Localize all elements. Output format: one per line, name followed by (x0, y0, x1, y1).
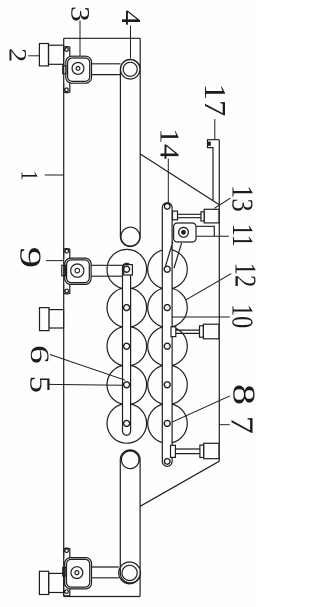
svg-text:8: 8 (226, 384, 259, 405)
bottom motor bracket (63, 548, 92, 596)
leader line 11 (196, 235, 229, 237)
leader line 4 (130, 26, 132, 59)
frame 1 top edge (64, 37, 141, 39)
belt 4 (top conveyor belt capsule) (120, 59, 140, 246)
motor 3 (top drive motor bracket) (63, 47, 92, 93)
leader line 5 (48, 383, 122, 386)
svg-text:17: 17 (198, 84, 232, 117)
svg-text:10: 10 (225, 304, 259, 328)
pulley top of bottom belt (121, 451, 139, 469)
right plate top chamfer (140, 154, 219, 205)
pulley bottom of belt 4 (121, 227, 140, 246)
leader line 3 (79, 21, 81, 57)
svg-text:14: 14 (154, 128, 184, 159)
holes and pins on swing bar 14 (164, 204, 170, 465)
bottom mounting foot (39, 571, 63, 594)
crank support step (196, 226, 214, 236)
leader line 6 (50, 355, 125, 381)
svg-text:7: 7 (224, 416, 258, 434)
roller column right (big rollers on swing bar 14) (148, 249, 188, 443)
actuator 7 (bottom cylinder) (171, 443, 219, 458)
motor 9 (middle drive motor bracket) (62, 249, 91, 294)
leader line 12 (186, 274, 232, 300)
svg-text:1: 1 (16, 171, 44, 181)
svg-text:11: 11 (227, 224, 259, 247)
middle mounting foot (40, 308, 64, 331)
pulley top of belt 4 (121, 60, 140, 79)
leader line 13 (214, 198, 230, 208)
bar 5 (left roller bar capsule) (123, 263, 131, 435)
crank 11 bracket (174, 223, 196, 242)
foot 2 (top mounting foot) (39, 44, 63, 66)
right plate edge (218, 140, 220, 462)
bottom conveyor belt capsule (120, 450, 140, 583)
actuator 13 (top cylinder) (173, 209, 219, 223)
pulley bottom of bottom belt (119, 562, 141, 584)
svg-text:9: 9 (13, 247, 47, 268)
actuator 10 (middle cylinder) (171, 324, 219, 339)
leader line 1 (45, 174, 64, 176)
bracket 17 (208, 140, 220, 201)
svg-text:6: 6 (25, 345, 55, 364)
svg-text:13: 13 (225, 185, 259, 212)
leader line 7 (219, 424, 229, 426)
belt 4 right edge extension to frame top corner (139, 38, 141, 69)
pins on bar 5 (124, 266, 130, 426)
roller 6 column left (big rollers on bar 5) (107, 249, 147, 443)
leader line 9 (46, 260, 64, 262)
leader line 8 (171, 396, 230, 423)
leader line 14 (167, 159, 169, 204)
svg-text:5: 5 (24, 376, 55, 393)
shaft end square on bar 5 (124, 265, 133, 275)
svg-text:4: 4 (116, 10, 147, 26)
bottom belt right edge extension to frame bottom corner (139, 573, 141, 597)
leader line 2 (28, 55, 39, 57)
shaft motor 3 to pulley (92, 64, 121, 75)
shaft motor 9 to left bar (91, 265, 124, 276)
svg-text:12: 12 (228, 263, 259, 288)
leader line 17 (214, 119, 216, 140)
frame 1 bottom edge (64, 596, 140, 598)
frame 1 left edge (63, 38, 65, 596)
right plate bottom chamfer (140, 461, 219, 506)
link crank to bar pin (165, 242, 181, 268)
shaft bottom motor to pulley (92, 567, 119, 578)
leader line 10 (172, 316, 229, 318)
swing bar 14 (right long bar capsule) (162, 203, 172, 467)
svg-text:3: 3 (65, 6, 94, 22)
svg-text:2: 2 (4, 48, 32, 62)
